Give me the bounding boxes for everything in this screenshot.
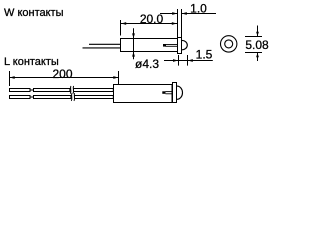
sensor W: flange <box>178 38 182 54</box>
svg-text:20.0: 20.0 <box>140 12 164 26</box>
sensor L: wire 2 segment B <box>34 96 71 99</box>
sensor W: lower lead <box>83 47 122 49</box>
front view: outer circle <box>221 36 237 52</box>
sensor W: internal contact lines <box>166 44 178 46</box>
dim 5.08: up arrow <box>257 53 259 61</box>
dim 200: left arrowhead <box>10 76 15 79</box>
svg-text:1.0: 1.0 <box>190 2 207 16</box>
dim 200: extension line left <box>9 71 11 86</box>
sensor L: wire 2 break marks <box>70 93 73 101</box>
sensor W: upper lead <box>89 43 121 45</box>
sensor W: internal contact dot <box>163 44 166 47</box>
front view: inner circle <box>225 40 233 48</box>
sensor L: internal contact dot <box>162 91 165 94</box>
dim dia 4.3: vertical line <box>133 28 135 59</box>
svg-text:W контакты: W контакты <box>4 7 64 19</box>
dim 20.0: left arrowhead <box>121 22 126 25</box>
dim 5.08: top line <box>245 36 262 38</box>
svg-text:1.5: 1.5 <box>196 48 213 62</box>
sensor L: wire 1 segment C <box>74 89 114 92</box>
sensor L: wire 2 segment A <box>10 96 31 99</box>
sensor L: dome <box>177 86 182 99</box>
sensor L: body <box>114 85 173 103</box>
sensor W: body <box>121 39 178 52</box>
dim 20.0: right arrowhead <box>172 22 177 25</box>
svg-text:200: 200 <box>52 67 72 81</box>
sensor L: wire 1 segment A <box>10 89 31 92</box>
dim 1.0: left leader <box>160 13 177 15</box>
dim 1.5: middle line <box>179 60 188 62</box>
dim 200: extension line right <box>118 71 120 85</box>
dim 20.0: dimension line <box>121 23 177 25</box>
dim 1.0: extension line B <box>181 9 183 38</box>
dim 1.0: right leader <box>182 13 216 15</box>
dim dia 4.3: up arrowhead <box>132 52 135 57</box>
dim 200: right arrowhead <box>113 76 118 79</box>
dim 5.08: down arrow <box>257 26 259 37</box>
sensor L: flange <box>173 83 177 103</box>
dim dia 4.3: down arrowhead <box>132 33 135 38</box>
dim 20.0: extension line left <box>120 20 122 36</box>
dim 200: dimension line <box>10 77 119 79</box>
sensor L: wire 1 neck <box>30 89 34 91</box>
dim 1.0: extension line A <box>177 9 179 38</box>
dim 5.08: bottom line <box>245 52 262 54</box>
dim 1.5: tick A <box>178 55 180 66</box>
dim 1.5: left leader <box>164 60 178 62</box>
svg-text:ø4.3: ø4.3 <box>135 57 159 71</box>
sensor L: internal contact lines <box>166 91 173 93</box>
sensor W: dome <box>182 40 187 49</box>
sensor L: wire 2 neck <box>30 96 34 98</box>
sensor L: wire 1 break marks <box>69 86 72 94</box>
sensor L: wire 2 segment C <box>75 96 114 99</box>
svg-text:5.08: 5.08 <box>245 38 269 52</box>
svg-text:L контакты: L контакты <box>4 56 59 68</box>
dim 1.5: tick B <box>187 55 189 66</box>
dim 1.5: right leader <box>188 60 213 62</box>
sensor L: wire 1 segment B <box>34 89 70 92</box>
